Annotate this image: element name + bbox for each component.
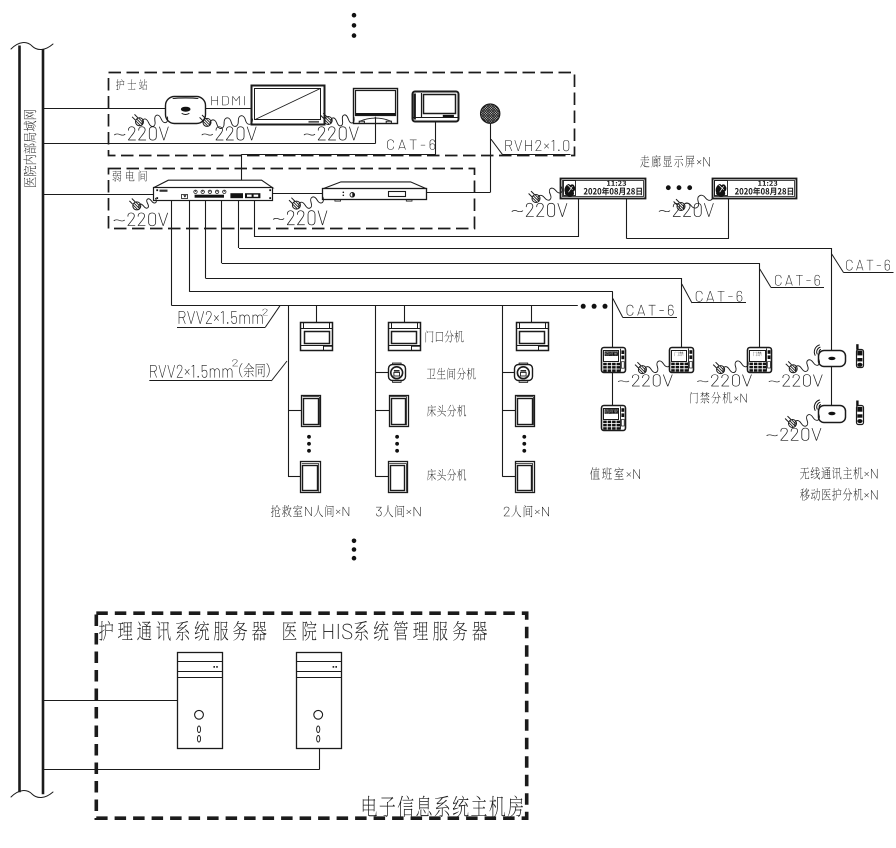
access unit 2 — [748, 348, 772, 373]
ward label 3 — [504, 505, 549, 517]
mobile handset label — [800, 488, 878, 500]
hospital LAN bus line right — [42, 49, 45, 794]
server room label — [363, 795, 523, 816]
CAT-6 label wireless — [832, 254, 844, 273]
wireless host label — [800, 467, 877, 479]
door unit 2 — [389, 323, 421, 351]
ellipsis ward trunk — [581, 304, 586, 309]
wire trunk access unit 2 — [221, 200, 223, 263]
~220V label 4 — [114, 213, 168, 226]
bus label — [24, 110, 37, 187]
server tower 2 — [297, 653, 342, 749]
nurse station label — [116, 79, 147, 90]
wire bus to server 2 — [43, 769, 320, 771]
server label 1 — [99, 621, 266, 641]
clock text 1 — [607, 181, 626, 186]
power cord switch — [139, 198, 156, 208]
door unit label — [426, 331, 464, 343]
RVH2x1.0 label — [491, 139, 503, 154]
network switch — [154, 180, 273, 188]
bed unit 1a — [302, 396, 321, 427]
ellipsis column 1 — [307, 435, 311, 439]
duty room label — [590, 467, 640, 480]
CAT-6 label duty — [613, 299, 623, 318]
power cord wireless host 2 — [795, 415, 820, 427]
wireless host 2 — [819, 406, 846, 423]
ward column 1 trunk wire — [288, 306, 290, 477]
CAT-6 label access 2 — [760, 269, 771, 288]
bed unit 3a — [516, 396, 535, 427]
power cord corridor display 1 — [538, 187, 562, 201]
toilet unit 3 — [519, 363, 528, 365]
access unit 1 — [670, 348, 694, 373]
~220V label 1 — [114, 126, 169, 140]
~220V label 9 — [697, 374, 752, 386]
ellipsis corridor — [666, 185, 671, 190]
ward label 1 — [271, 505, 349, 517]
handset 2 — [856, 401, 858, 407]
monitor — [354, 89, 398, 124]
nurse station dashed box — [109, 73, 575, 156]
ward column 3 trunk wire — [502, 306, 504, 477]
toilet unit label — [427, 368, 476, 380]
CAT-6 label access 1 — [682, 284, 692, 303]
HDMI label — [211, 96, 244, 105]
power cord intercom host — [299, 197, 324, 208]
bed unit 1b — [301, 462, 321, 493]
intercom host — [322, 182, 427, 189]
bed unit label a — [427, 405, 466, 417]
wire trunk corridor displays — [254, 200, 256, 237]
bed unit 2b — [389, 462, 408, 493]
wireless host 1 — [819, 351, 846, 367]
ellipsis column 2 — [395, 435, 399, 439]
wire bus to nurse host — [43, 108, 166, 110]
bus break symbol top — [11, 43, 53, 50]
RVV2x1.5mm2 yutong label — [271, 361, 287, 381]
bus break symbol bottom — [11, 791, 53, 798]
vertical ellipsis middle — [352, 539, 357, 544]
wire trunk duty room — [189, 200, 191, 292]
server room dashed box — [96, 613, 526, 818]
~220V label 2 — [202, 126, 257, 140]
corridor display 1 — [561, 179, 646, 199]
wire nurse host to wall display — [206, 108, 252, 110]
door unit 3 — [517, 323, 549, 351]
vertical ellipsis top — [352, 13, 357, 18]
wire bus to switch — [43, 194, 154, 196]
power cord wall display — [210, 116, 253, 129]
wire trunk wards RVV — [171, 200, 173, 305]
power cord access 2 — [723, 361, 748, 373]
handset 1 — [856, 344, 858, 350]
~220V label 6 — [512, 203, 568, 217]
power cord wireless host 1 — [795, 360, 819, 372]
wire wireless chain — [831, 367, 833, 405]
wire switch to intercom host — [273, 193, 323, 195]
ellipsis column 3 — [522, 435, 526, 439]
corridor display label — [640, 155, 710, 168]
wire bus to server 1 — [43, 700, 177, 702]
power cord access 1 — [645, 361, 670, 373]
CAT-6 label nurse — [387, 139, 435, 149]
~220V label 8 — [618, 374, 673, 386]
wire trunk wireless host — [238, 200, 240, 248]
clock text 2 — [758, 181, 777, 186]
nurse host unit — [166, 97, 206, 124]
wire duty chain — [612, 373, 614, 405]
weak room dashed box — [109, 169, 475, 229]
wire corridor display chain — [626, 199, 628, 239]
bed unit 2a — [390, 396, 409, 427]
toilet unit 2 — [393, 363, 402, 365]
RVV2x1.5mm2 label — [265, 306, 280, 328]
wall display — [252, 86, 325, 125]
corridor display 2 — [713, 179, 797, 199]
door unit 1 — [301, 323, 333, 351]
wire bus to monitor — [43, 143, 375, 145]
ward label 2 — [376, 505, 421, 517]
power cord nurse host — [142, 115, 168, 126]
wire trunk access unit 1 — [205, 200, 207, 278]
server label 2 — [283, 621, 487, 641]
bed unit label b — [427, 469, 466, 481]
server tower 1 — [178, 653, 223, 749]
wire bedside terminal drop — [435, 122, 437, 155]
~220V label 5 — [273, 210, 327, 225]
duty unit 2 — [602, 406, 626, 431]
~220V label 10 — [769, 374, 823, 386]
weak room label — [113, 171, 147, 182]
bedside terminal — [413, 92, 459, 122]
duty unit 1 — [602, 348, 626, 373]
~220V label 11 — [766, 428, 821, 441]
access label — [690, 392, 747, 404]
hospital LAN bus line left — [18, 46, 21, 793]
~220V label 3 — [304, 126, 359, 140]
wire speaker to intercom host — [490, 123, 492, 192]
~220V label 7 — [659, 203, 714, 217]
power cord corridor display 2 — [683, 194, 713, 209]
ward column 2 trunk wire — [375, 306, 377, 477]
power cord monitor — [331, 115, 354, 126]
bed unit 3b — [516, 462, 535, 493]
